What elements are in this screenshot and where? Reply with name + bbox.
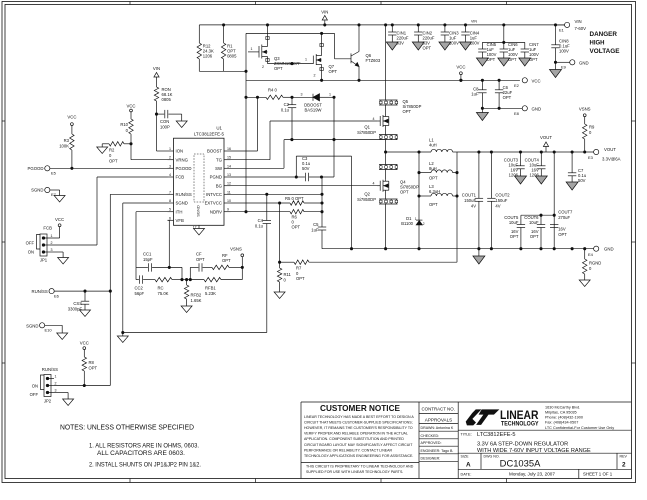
svg-text:2: 2 [314, 74, 316, 78]
date / sheet row [461, 472, 613, 477]
svg-text:RUN/SS: RUN/SS [42, 367, 58, 372]
wire SW row and riser [231, 140, 285, 169]
U1 pin 1 ION [168, 147, 184, 154]
ground below CIN8 [550, 62, 562, 77]
capacitor C7 [568, 152, 587, 183]
svg-text:LTC3812EFE-5: LTC3812EFE-5 [477, 432, 515, 438]
node VOUT arrow [540, 135, 552, 152]
U1 pin 7 RUN/SS [168, 190, 192, 197]
U1 pin 2 VRNG [168, 156, 189, 163]
svg-text:1uF: 1uF [311, 227, 319, 232]
wire ITH to comp network [136, 212, 168, 268]
wire SW node to L1 [384, 140, 386, 165]
wire C3 box top [296, 156, 351, 177]
svg-text:BG: BG [216, 183, 223, 188]
ground below JP1 [58, 258, 69, 265]
inductor L3 [419, 184, 457, 207]
svg-text:R3: R3 [64, 138, 70, 143]
svg-text:VCC: VCC [55, 217, 64, 222]
wire R10 to pin2 VRNG [131, 144, 168, 160]
resistor RF [212, 253, 244, 270]
resistor RFB2 [184, 278, 201, 306]
Linear Technology logo [466, 410, 539, 428]
svg-text:BOOST: BOOST [207, 149, 222, 154]
svg-text:VCC: VCC [67, 115, 76, 120]
wire diode to SW riser [333, 96, 335, 177]
terminal E5 PGOOD [28, 166, 57, 176]
svg-text:COUT1: COUT1 [462, 193, 477, 198]
svg-text:CSS: CSS [73, 301, 82, 306]
svg-text:16V: 16V [558, 227, 566, 232]
wire bias top link [246, 32, 335, 34]
svg-text:CIRCUIT THAT MEETS CUSTOMER-SU: CIRCUIT THAT MEETS CUSTOMER-SUPPLIED SPE… [304, 421, 413, 425]
svg-text:OPT: OPT [429, 202, 438, 207]
svg-text:VOUT: VOUT [540, 135, 552, 140]
ground on power rail [473, 249, 485, 264]
capacitor COUT7 [550, 210, 573, 238]
capacitor CC2 [135, 275, 156, 295]
wire VOUT rail [457, 151, 594, 153]
capacitor CIN8 [551, 25, 570, 62]
svg-text:VIN: VIN [471, 19, 477, 23]
svg-text:1630 McCarthy Blvd.: 1630 McCarthy Blvd. [545, 406, 580, 410]
wire JP2 riser [109, 291, 111, 385]
svg-text:EXTVCC: EXTVCC [205, 201, 222, 206]
svg-text:VERIFY PROPER AND RELIABLE OPE: VERIFY PROPER AND RELIABLE OPERATION IN … [304, 432, 408, 436]
svg-text:SGND: SGND [26, 323, 38, 328]
svg-text:10: 10 [227, 199, 231, 203]
title text [461, 432, 592, 454]
svg-text:4: 4 [169, 173, 171, 177]
capacitor C8 [471, 80, 486, 108]
svg-text:5.23K: 5.23K [205, 291, 216, 296]
svg-text:C5: C5 [313, 222, 319, 227]
node VIN top arrow [321, 10, 328, 25]
svg-text:4: 4 [373, 182, 375, 186]
svg-text:1206: 1206 [203, 54, 213, 59]
wire JP2 pin3 to ground [54, 393, 68, 400]
node VSNS comp [230, 246, 244, 279]
wire E7 to ground [50, 190, 60, 196]
svg-text:OPT: OPT [508, 57, 517, 62]
capacitor CIN5 [476, 42, 496, 66]
svg-text:REV: REV [620, 455, 628, 459]
svg-text:TITLE:: TITLE: [461, 433, 472, 437]
ground below CON [176, 121, 187, 128]
wire VFB to comp network [168, 220, 170, 267]
transistor Q4 Q2 pair [357, 165, 419, 205]
node VCC for JP1 [55, 217, 64, 238]
svg-text:APPROVED:: APPROVED: [421, 441, 442, 445]
svg-text:R11: R11 [284, 272, 292, 277]
svg-text:8: 8 [169, 199, 171, 203]
svg-text:APPLICATION. COMPONENT SUBSTI: APPLICATION. COMPONENT SUBSTITUTION AND … [304, 437, 404, 441]
svg-text:VCC: VCC [532, 78, 541, 83]
svg-text:COUT7: COUT7 [558, 210, 573, 215]
wire TG row and riser [231, 121, 271, 160]
U1 pin 12 BG [216, 182, 231, 189]
svg-text:3.3V@6A: 3.3V@6A [602, 157, 621, 162]
terminal E8 GND [514, 106, 541, 116]
svg-text:WITH WIDE 7-60V INPUT VOLTAG: WITH WIDE 7-60V INPUT VOLTAGE RANGE [477, 448, 591, 454]
resistor R1 [221, 25, 237, 71]
wire top gate row [270, 117, 377, 121]
svg-text:OPT: OPT [329, 69, 338, 74]
svg-text:100V: 100V [470, 41, 480, 46]
wire Q2 source to ground rail [385, 204, 387, 249]
terminal E4 GND [588, 246, 614, 257]
ground below R2 [97, 147, 108, 154]
resistor R11 [277, 262, 291, 292]
wire EXTVCC drop to VOUT sense [278, 203, 280, 263]
svg-text:OPT: OPT [196, 257, 205, 262]
svg-text:75.0K: 75.0K [158, 291, 169, 296]
svg-text:FCB: FCB [176, 175, 185, 180]
capacitor COUT6 [524, 215, 545, 249]
svg-text:1: 1 [169, 147, 171, 151]
svg-text:DATE:: DATE: [461, 473, 472, 477]
svg-text:E8: E8 [514, 111, 520, 116]
svg-text:ION: ION [176, 149, 184, 154]
node VIN arrow left [153, 66, 160, 87]
svg-text:VOLTAGE: VOLTAGE [590, 48, 620, 55]
svg-text:JP1: JP1 [40, 258, 48, 263]
wire RON to pin1 ION [157, 114, 168, 151]
resistor R12 [197, 25, 214, 71]
svg-text:VIN: VIN [575, 19, 582, 24]
svg-text:1: 1 [329, 93, 331, 97]
svg-text:150uF: 150uF [495, 198, 507, 203]
terminal E10 SGND [26, 323, 52, 333]
wire BOOST row [231, 150, 258, 152]
wire CIN5-7 sub-rail [482, 25, 524, 44]
U1 pin 13 PGND [210, 173, 231, 180]
wire signal ground rail [122, 331, 267, 333]
svg-text:ENGINEER: Tago B.: ENGINEER: Tago B. [421, 449, 454, 453]
svg-text:VRNG: VRNG [176, 157, 189, 162]
wire CC2 left link [135, 267, 137, 279]
svg-text:PGND: PGND [210, 175, 222, 180]
capacitor CON [155, 110, 181, 130]
ground below COUT4 [535, 176, 547, 184]
label RUN/SS above JP2 [42, 367, 58, 372]
transistor Q6 [351, 25, 381, 80]
terminal E7 SGND [31, 187, 57, 197]
svg-text:E10: E10 [45, 328, 53, 333]
svg-text:Phone: (408)432-1900: Phone: (408)432-1900 [545, 416, 583, 420]
wire C3 box right riser [351, 156, 353, 249]
svg-text:3: 3 [51, 248, 53, 252]
svg-text:NDRV: NDRV [210, 209, 222, 214]
svg-text:VIN: VIN [321, 10, 328, 15]
wire BOOST riser [256, 96, 258, 151]
svg-text:2: 2 [169, 156, 171, 160]
svg-text:1.65K: 1.65K [191, 298, 202, 303]
svg-text:0.1u: 0.1u [255, 223, 264, 228]
wire PGOOD row [50, 167, 168, 169]
svg-text:1uF: 1uF [471, 91, 479, 96]
svg-text:13: 13 [227, 173, 231, 177]
svg-text:1: 1 [415, 217, 417, 221]
U1 pin 9 NDRV [210, 208, 231, 215]
svg-text:R2: R2 [109, 148, 115, 153]
svg-text:2: 2 [262, 65, 264, 69]
svg-text:E3: E3 [588, 155, 594, 160]
svg-text:11: 11 [227, 190, 231, 194]
svg-text:VIN: VIN [153, 66, 160, 71]
wire VCC rail [246, 79, 520, 81]
capacitor COUT4 [525, 152, 546, 178]
title block frame [301, 402, 632, 479]
resistor R2 [102, 142, 132, 164]
svg-text:Q1: Q1 [364, 125, 370, 130]
wire JP2 pin2 row [54, 384, 110, 386]
svg-text:3: 3 [55, 389, 57, 393]
svg-text:0805: 0805 [227, 54, 237, 59]
connector JP1 [26, 234, 60, 263]
svg-text:VSNS: VSNS [230, 246, 242, 251]
svg-text:CC2: CC2 [135, 286, 144, 291]
svg-text:VCC: VCC [456, 65, 465, 70]
svg-text:TECHNOLOGY: TECHNOLOGY [501, 422, 539, 428]
U1 pin 14 SW [215, 164, 231, 171]
U1 pin 16 BOOST [207, 147, 231, 154]
svg-text:SGND: SGND [196, 205, 201, 217]
svg-text:Si7850DP: Si7850DP [357, 197, 376, 202]
svg-text:6.3uH: 6.3uH [429, 189, 440, 194]
inductor L2 [419, 161, 457, 181]
resistor R8 [82, 357, 97, 385]
terminal E2 VCC [514, 78, 541, 88]
svg-text:4V: 4V [471, 204, 476, 209]
svg-text:1. ALL RESISTORS ARE IN OHMS,: 1. ALL RESISTORS ARE IN OHMS, 0603. [89, 443, 199, 450]
svg-text:OPT: OPT [423, 46, 432, 51]
inductor L1 [386, 138, 457, 153]
svg-text:DESIGNER:: DESIGNER: [421, 456, 441, 460]
svg-text:CIRCUIT BOARD LAYOUT MAY SIGNI: CIRCUIT BOARD LAYOUT MAY SIGNIFICANTLY A… [304, 443, 413, 447]
svg-text:3.3V 6A STEP-DOWN REGULATOR: 3.3V 6A STEP-DOWN REGULATOR [477, 442, 568, 448]
svg-text:0805: 0805 [162, 97, 172, 102]
svg-text:CON: CON [160, 119, 169, 124]
transistor Q3 [248, 25, 301, 71]
ground below C8 [476, 108, 488, 120]
svg-text:R4 0: R4 0 [268, 88, 278, 93]
svg-text:THIS CIRCUIT IS PROPRIETARY TO: THIS CIRCUIT IS PROPRIETARY TO LINEAR TE… [306, 465, 414, 469]
svg-text:VOUT: VOUT [604, 147, 616, 152]
svg-text:GND: GND [579, 60, 589, 65]
transistor Q5 Q1 pair [357, 99, 421, 140]
svg-text:OPT: OPT [292, 225, 301, 230]
svg-text:63V: 63V [397, 41, 405, 46]
svg-text:50V: 50V [302, 166, 310, 171]
svg-text:E6: E6 [54, 294, 60, 299]
svg-text:10uF: 10uF [509, 220, 519, 225]
wire JP1 pin3 to ground [50, 252, 63, 258]
svg-text:2: 2 [622, 462, 626, 469]
svg-text:SUPPLIED FOR USE WITH LINEAR T: SUPPLIED FOR USE WITH LINEAR TECHNOLOGY … [306, 470, 403, 474]
wire BG row [231, 182, 378, 186]
danger high voltage warning [590, 31, 620, 55]
svg-text:1: 1 [55, 375, 57, 379]
label FCB [43, 226, 52, 231]
svg-text:OPT: OPT [403, 109, 412, 114]
wire SGND pin8 riser [123, 203, 168, 333]
wire SW drop column [418, 151, 420, 220]
svg-text:8uH: 8uH [429, 166, 437, 171]
svg-text:GND: GND [532, 106, 542, 111]
resistor R7 [280, 260, 457, 281]
svg-text:100P: 100P [160, 125, 170, 130]
svg-text:CUSTOMER NOTICE: CUSTOMER NOTICE [320, 404, 400, 413]
terminal E9 GND [554, 60, 588, 70]
svg-text:OPT: OPT [530, 234, 539, 239]
svg-text:7-60V: 7-60V [575, 26, 587, 31]
ground below C7 [566, 182, 578, 190]
svg-text:DC1035A: DC1035A [500, 458, 541, 469]
svg-text:4: 4 [373, 117, 375, 121]
U1 pin 3 PGOOD [168, 164, 192, 171]
node VCC for R8 [80, 341, 89, 358]
svg-text:OPT: OPT [503, 95, 512, 100]
svg-text:2: 2 [423, 222, 425, 226]
capacitor CIN6 [498, 42, 518, 66]
svg-text:JP2: JP2 [44, 399, 52, 404]
svg-text:R8: R8 [89, 360, 95, 365]
svg-text:VCC: VCC [80, 341, 89, 346]
resistor RON [154, 87, 172, 114]
node VCC for R10 [126, 104, 135, 120]
wire gate pull-up bottom rail [199, 70, 247, 72]
capacitor C2 [281, 96, 296, 140]
svg-text:OPT: OPT [529, 57, 538, 62]
connector JP2 [30, 375, 57, 404]
customer notice text [304, 404, 414, 474]
svg-text:100V: 100V [559, 48, 569, 53]
diode D1 [401, 216, 425, 249]
svg-text:100V: 100V [449, 41, 459, 46]
resistor RC [155, 277, 187, 295]
node VSNS right [579, 107, 591, 125]
svg-text:DANGER: DANGER [590, 31, 618, 38]
resistor R4 [246, 88, 292, 100]
svg-text:RFB1: RFB1 [205, 286, 216, 291]
approvals column text [421, 407, 455, 461]
svg-text:OPT: OPT [487, 57, 496, 62]
svg-text:3: 3 [301, 93, 303, 97]
node VCC for R3 [67, 115, 76, 135]
wire E10 to ground [45, 325, 63, 333]
svg-text:CONTRACT NO.: CONTRACT NO. [422, 407, 455, 412]
svg-text:HOWEVER, IT REMAINS THE CUSTOM: HOWEVER, IT REMAINS THE CUSTOMER'S RESPO… [304, 426, 413, 430]
wire RUN/SS row [54, 290, 111, 292]
svg-text:5: 5 [169, 208, 171, 212]
U1 pin 11 INTVCC [206, 190, 231, 197]
svg-text:OFF: OFF [30, 392, 39, 397]
U1 pin 4 FCB [168, 173, 185, 180]
wire JP1 pin2 to FCB pin4 [50, 177, 168, 245]
svg-text:2: 2 [51, 241, 53, 245]
svg-text:2. INSTALL SHUNTS ON JP1&JP2 P: 2. INSTALL SHUNTS ON JP1&JP2 PIN 1&2. [89, 462, 201, 469]
wire L2 L3 output riser [456, 152, 458, 262]
svg-text:TECHNOLOGY APPLICATIONS ENGINE: TECHNOLOGY APPLICATIONS ENGINEERING FOR … [304, 454, 413, 458]
svg-text:FTZ603: FTZ603 [366, 58, 381, 63]
svg-text:PGOOD: PGOOD [28, 166, 44, 171]
svg-text:LTC Confidential-For Customer: LTC Confidential-For Customer Use Only [545, 426, 614, 430]
U1 pin 17 SGND pad ground [193, 225, 205, 235]
svg-text:BAS19W: BAS19W [305, 108, 322, 113]
resistor R3 [59, 134, 74, 168]
svg-text:0.1u: 0.1u [281, 108, 290, 113]
resistor R6 [231, 210, 324, 230]
svg-text:ALL CAPACITORS ARE 0603.: ALL CAPACITORS ARE 0603. [97, 450, 185, 457]
terminal E3 VOUT [588, 147, 621, 162]
transistor Q7 [305, 33, 338, 80]
svg-text:9: 9 [227, 208, 229, 212]
capacitor COUT2 [487, 152, 510, 249]
capacitor CIN1 [386, 25, 409, 50]
svg-text:1: 1 [305, 58, 307, 62]
U1 pin 15 TG [216, 156, 231, 163]
resistor RFB1 [187, 277, 243, 295]
wire NDRV vertical bus [245, 33, 247, 211]
svg-text:56pF: 56pF [135, 291, 145, 296]
svg-text:Q2: Q2 [364, 192, 370, 197]
capacitor COUT1 [462, 152, 483, 249]
capacitor CC1 [136, 252, 182, 272]
svg-text:PERFORMANCE OR RELIABILITY. C: PERFORMANCE OR RELIABILITY. CONTACT LINE… [304, 448, 393, 452]
svg-text:U1: U1 [216, 126, 222, 131]
svg-text:VSNS: VSNS [579, 107, 591, 112]
svg-text:14: 14 [227, 164, 231, 168]
svg-text:270uF: 270uF [558, 215, 570, 220]
svg-text:100K: 100K [59, 144, 69, 149]
wire power ground rail [322, 248, 594, 250]
svg-text:4uH: 4uH [429, 143, 437, 148]
ground below COUT3 [515, 176, 527, 184]
ground below JP2 [63, 399, 74, 406]
svg-text:OPT: OPT [400, 190, 409, 195]
svg-text:OFF: OFF [26, 241, 35, 246]
svg-text:RFB2: RFB2 [191, 293, 202, 298]
wire PGND row [231, 176, 298, 178]
svg-text:LINEAR TECHNOLOGY HAS MADE A B: LINEAR TECHNOLOGY HAS MADE A BEST EFFORT… [304, 415, 414, 419]
svg-text:RGND: RGND [589, 261, 601, 266]
resistor R10 [120, 119, 133, 144]
terminal E1 VIN [556, 19, 587, 33]
wire SW upper row [284, 138, 386, 140]
wire RUN/SS riser to pin7 [110, 194, 167, 291]
svg-text:3: 3 [169, 164, 171, 168]
size / dwg no / rev row [461, 455, 628, 469]
wire CC1 right corner [181, 267, 183, 280]
svg-text:HIGH: HIGH [590, 40, 605, 47]
svg-text:CF: CF [196, 252, 202, 257]
wire INTVCC bus vertical [321, 177, 323, 227]
svg-text:ON: ON [32, 384, 38, 389]
svg-text:R10: R10 [120, 122, 128, 127]
capacitor CIN2 [412, 25, 435, 51]
svg-text:OPT: OPT [89, 366, 98, 371]
resistor R5 [231, 196, 324, 205]
svg-text:OPT: OPT [296, 276, 305, 281]
capacitor C3 [296, 156, 334, 181]
svg-text:VFB: VFB [176, 218, 184, 223]
svg-text:R5 0 OPT: R5 0 OPT [285, 196, 304, 201]
svg-text:R7: R7 [296, 266, 302, 271]
svg-text:OPT: OPT [510, 234, 519, 239]
resistor RGND [583, 249, 602, 280]
svg-text:7: 7 [169, 190, 171, 194]
